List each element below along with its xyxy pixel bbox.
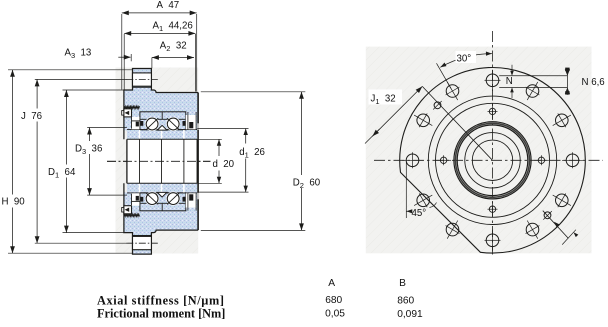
seal (bottom right)	[187, 193, 189, 211]
seal lips inner (bottom)	[140, 197, 143, 202]
dimension A 47	[121, 14, 123, 90]
bearing unit housing (sectioned, top half)	[124, 69, 198, 131]
grease boss bore (bottom)	[133, 236, 152, 249]
dimension d1 26	[197, 128, 248, 130]
svg-text:N: N	[506, 76, 513, 87]
svg-text:0,05: 0,05	[325, 309, 345, 320]
svg-text:D1 64: D1 64	[48, 167, 76, 180]
grease boss axis (bottom)	[126, 242, 158, 244]
seal pocket (bottom right)	[186, 193, 196, 207]
bore circle	[472, 140, 512, 180]
svg-text:Axial stiffness [N/µm]: Axial stiffness [N/µm]	[97, 294, 225, 308]
inner ring shoulder circle	[465, 133, 520, 188]
outer ring split line (bottom)	[161, 204, 163, 211]
grease fitting holes on diagonal	[433, 101, 442, 110]
flange outline (circle with corner flat at lower left)	[400, 67, 586, 253]
shaft bore	[127, 139, 197, 183]
dimension A1 44,26	[123, 34, 125, 90]
grease fitting leader (lower right)	[554, 222, 560, 228]
dimension 45 degrees	[405, 162, 407, 219]
dimension 30 degrees	[440, 54, 492, 68]
svg-text:J 76: J 76	[21, 111, 42, 122]
grease boss bore (top)	[133, 73, 152, 86]
svg-text:D3 36: D3 36	[75, 144, 102, 157]
ball pockets (top)	[145, 117, 159, 131]
seal lips inner (top)	[140, 121, 143, 126]
inner ring centre rib (bottom)	[157, 192, 167, 197]
dimension D3 36	[87, 127, 127, 129]
inner ring outlines	[127, 129, 197, 131]
spigot ring shading	[456, 123, 530, 197]
svg-text:860: 860	[397, 295, 414, 306]
dimension N (hole diameter)	[499, 75, 567, 77]
inner ring centre rib (top)	[157, 125, 167, 130]
seal (top left)	[131, 117, 133, 129]
dimension J1 32	[372, 86, 422, 136]
outer ring split line (top)	[161, 112, 163, 119]
ball row (top)	[146, 118, 158, 130]
bearing outer ring (bottom)	[140, 193, 186, 211]
svg-text:d1 26: d1 26	[239, 147, 265, 160]
grey backdrop left view	[116, 68, 199, 254]
svg-text:A: A	[328, 278, 335, 289]
svg-text:N 6,6: N 6,6	[582, 77, 605, 88]
housing spigot circle (inner)	[457, 125, 528, 196]
svg-text:d 20: d 20	[213, 159, 235, 170]
svg-text:45°: 45°	[412, 208, 427, 219]
dimension D1 64	[63, 89, 124, 91]
outer ring raceway shoulders (top)	[140, 118, 146, 120]
seal pocket (top right)	[186, 115, 196, 129]
housing boss circle	[436, 103, 550, 217]
seal pocket (top left)	[132, 117, 140, 129]
ball row (bottom)	[146, 193, 158, 205]
horizontal centerline (front view)	[374, 159, 603, 161]
ball pockets (bottom)	[145, 192, 159, 206]
diagonal leader through lower grease fitting	[543, 211, 569, 239]
grey backdrop right view	[366, 47, 592, 254]
seal (bottom left)	[131, 194, 133, 206]
dimension A2 32	[151, 58, 153, 69]
svg-text:A1 44,26: A1 44,26	[153, 21, 193, 34]
grease boss axis (top)	[126, 78, 158, 80]
svg-text:30°: 30°	[457, 54, 472, 65]
bearing outer ring (top)	[140, 112, 186, 130]
svg-text:0,091: 0,091	[397, 309, 423, 320]
dimension H 90	[8, 69, 132, 71]
4 small threaded holes at cardinals	[488, 104, 498, 119]
inner ring section band (bottom)	[127, 183, 197, 193]
svg-text:A2 32: A2 32	[160, 41, 187, 54]
svg-text:680: 680	[325, 295, 342, 306]
svg-text:A 47: A 47	[157, 0, 180, 11]
flange inner edge circle	[428, 96, 556, 224]
svg-text:B: B	[399, 278, 406, 289]
svg-text:J1 32: J1 32	[371, 94, 396, 107]
svg-text:Frictional moment [Nm]: Frictional moment [Nm]	[97, 307, 225, 321]
set screw (top)	[122, 111, 124, 116]
locknut knurl band (bottom)	[124, 214, 139, 216]
housing spigot circle (outer)	[454, 122, 531, 199]
svg-text:D2 60: D2 60	[293, 177, 321, 190]
bearing unit housing (sectioned, bottom half)	[124, 192, 198, 254]
svg-text:A3 13: A3 13	[65, 47, 92, 60]
inner ring section band (top)	[127, 130, 197, 140]
housing outline	[124, 69, 198, 140]
locknut knurl band (top)	[124, 106, 139, 108]
shaft centerline (left view axis)	[107, 160, 224, 162]
seal pocket (bottom left)	[132, 193, 140, 205]
12 mounting holes N on bolt circle	[485, 70, 501, 91]
seal (top right)	[187, 112, 189, 130]
dimension J 76	[35, 78, 127, 80]
dimension D2 60	[201, 91, 305, 93]
30 deg extension line	[437, 63, 452, 88]
dimension d 20	[197, 138, 222, 140]
diagonal centerline through upper grease fitting	[422, 86, 492, 160]
dimension A3 13	[118, 56, 130, 58]
inner ring faces at bore	[139, 139, 141, 183]
vertical centerline (front view)	[492, 31, 494, 255]
outer ring raceway shoulders (bottom)	[140, 202, 146, 204]
svg-text:H 90: H 90	[2, 197, 26, 208]
axis over bore	[107, 160, 224, 162]
set screw (bottom)	[122, 208, 124, 213]
housing right face	[197, 93, 199, 231]
